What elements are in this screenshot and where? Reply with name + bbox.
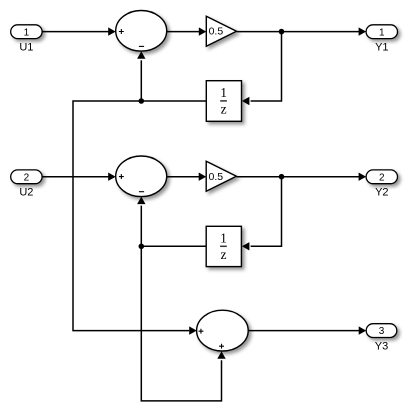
sum Sum1 (116, 11, 167, 52)
inport U2 (11, 170, 42, 199)
wire Sum2 to Gain2 (167, 173, 207, 181)
wire Gain1 to Y1 (237, 27, 367, 35)
svg-text:Y2: Y2 (375, 187, 388, 199)
svg-text:2: 2 (24, 172, 30, 183)
svg-text:0.5: 0.5 (209, 171, 224, 183)
unit delay UnitDelay1 (206, 81, 241, 122)
outport Y1 (366, 25, 397, 54)
wire U1 to Sum1 (42, 27, 116, 35)
gain Gain1 value 0.5 (206, 16, 236, 46)
inport U1 (11, 25, 42, 54)
outport Y3 (366, 324, 397, 353)
wire Sum1 to Gain1 (167, 27, 207, 35)
wire junction up to Sum1 minus input (137, 51, 145, 101)
svg-text:1: 1 (220, 230, 227, 245)
svg-text:z: z (221, 102, 227, 117)
sum Sum2 (116, 156, 167, 197)
wire UnitDelay1 state down to Sum3 (73, 101, 197, 335)
junction node on UnitDelay1 output (139, 98, 145, 104)
wire UnitDelay2 state down around to Sum3 bottom input (141, 246, 225, 401)
svg-text:1: 1 (24, 27, 30, 38)
wire U2 to Sum2 (42, 173, 116, 181)
sum Sum3 (197, 310, 249, 351)
gain Gain2 value 0.5 (206, 161, 236, 191)
svg-text:U2: U2 (19, 187, 33, 199)
outport Y2 (366, 170, 397, 199)
wire UnitDelay1 output left (141, 100, 206, 102)
junction node on UnitDelay2 output (139, 244, 145, 250)
wire Sum3 to Y3 (248, 326, 366, 334)
junction node after Gain2 (279, 174, 285, 180)
unit delay UnitDelay2 (206, 226, 241, 266)
svg-text:1: 1 (379, 27, 385, 38)
wire UnitDelay2 output left (141, 245, 206, 247)
svg-text:3: 3 (379, 326, 385, 337)
svg-text:2: 2 (379, 172, 385, 183)
wire junction up to Sum2 minus input (137, 197, 145, 247)
svg-text:U1: U1 (19, 42, 33, 54)
wire Gain2 to Y2 (236, 173, 366, 181)
svg-text:z: z (221, 247, 227, 262)
svg-text:0.5: 0.5 (209, 26, 224, 38)
wire junction down to UnitDelay1 input (242, 32, 282, 106)
junction node after Gain1 (279, 29, 285, 35)
wire junction down to UnitDelay2 input (242, 177, 282, 251)
svg-text:Y1: Y1 (375, 42, 388, 54)
svg-text:1: 1 (220, 85, 227, 100)
svg-text:Y3: Y3 (375, 341, 388, 353)
